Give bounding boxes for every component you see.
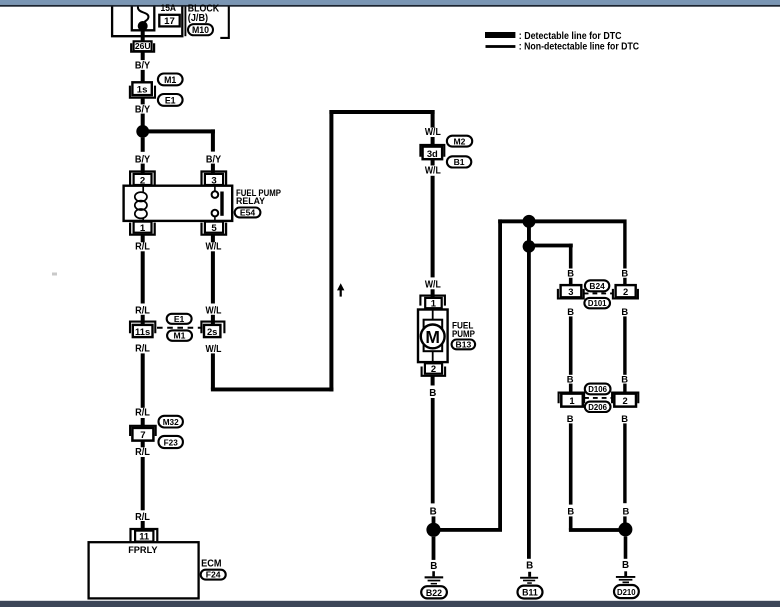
connector oval F23 [159, 436, 183, 448]
wire W/L riser up [329, 110, 333, 391]
ground symbol D210 [616, 576, 635, 583]
legend thin non-detectable line sample [486, 45, 516, 48]
svg-text:1s: 1s [137, 85, 148, 96]
svg-text:E1: E1 [165, 95, 176, 105]
svg-text:R/L: R/L [135, 447, 150, 458]
svg-text:R/L: R/L [135, 305, 150, 316]
pump connector 1 bracket [420, 296, 445, 306]
svg-text:B13: B13 [456, 339, 472, 349]
connector 7 bracket [130, 426, 156, 436]
connector 11s bracket [130, 322, 155, 334]
connector oval B1 [447, 156, 471, 167]
svg-text:RELAY: RELAY [236, 196, 266, 207]
wire label R/L above 7 [135, 408, 150, 419]
wire stub left col to junction horizontal [569, 516, 573, 530]
connector 2 bracket row1 [613, 289, 638, 299]
svg-text:B: B [567, 306, 574, 317]
dashed line between 3 and 2 [584, 292, 613, 294]
relay label FUEL PUMP RELAY [236, 188, 282, 207]
svg-text:2: 2 [431, 363, 436, 374]
wire label B below 2 row2 [621, 413, 628, 424]
connector oval B24 [585, 280, 609, 291]
wire right column right down from corner [623, 223, 626, 269]
wire W/L long segment [211, 251, 215, 303]
label ECM [201, 558, 221, 569]
wire 26U to B/Y [141, 52, 145, 60]
connector 1 bracket row2 [559, 393, 585, 404]
svg-text:W/L: W/L [425, 280, 441, 291]
relay pin 5 bracket [202, 223, 227, 235]
svg-text:FPRLY: FPRLY [128, 545, 158, 556]
connector oval E1 [158, 94, 183, 106]
junction dot [136, 125, 149, 138]
svg-text:B: B [567, 413, 574, 424]
relay coil [135, 186, 147, 223]
svg-text:11: 11 [139, 531, 149, 542]
wire label B/Y right [206, 155, 222, 166]
wire label R/L [135, 241, 150, 252]
wire stub below pump [431, 376, 435, 386]
legend text detectable [519, 30, 622, 42]
junction dot lower [523, 240, 536, 253]
wire W/L down to 3d [431, 110, 435, 128]
connector 1s bracket [130, 86, 155, 98]
dashed line between 1 and 2 row2 [584, 397, 612, 399]
wire R/L to ECM [141, 457, 145, 510]
svg-text:M10: M10 [192, 25, 209, 35]
svg-text:R/L: R/L [135, 408, 150, 419]
wire below D210 dot [624, 536, 628, 558]
wire label B left col above junction [567, 505, 574, 516]
wire label B above ground B11 [526, 560, 533, 571]
svg-text:F24: F24 [206, 570, 221, 580]
svg-text:W/L: W/L [206, 305, 222, 316]
svg-text:PUMP: PUMP [452, 329, 476, 340]
wire label B right col above junction [623, 505, 630, 516]
wire lower dot horizontal to column [529, 244, 573, 248]
flow arrow [337, 283, 344, 296]
svg-text:B: B [526, 560, 533, 571]
wire branch horizontal to relay pin 3 [143, 129, 215, 151]
connector 3 bracket [558, 289, 584, 299]
connector 11s box [133, 325, 153, 337]
connector oval M1 [167, 330, 192, 340]
wire label B below pump [429, 388, 436, 399]
svg-text:B: B [621, 413, 628, 424]
svg-text:B: B [621, 306, 628, 317]
svg-text:B: B [429, 388, 436, 399]
label FPRLY [128, 545, 158, 556]
connector 2 box row2 [614, 394, 636, 407]
wire W/L down from 2s [211, 353, 215, 389]
header bar [0, 0, 780, 7]
svg-text:B: B [430, 561, 437, 572]
fuse block right bracket [220, 7, 229, 38]
relay pin 5 box [205, 222, 223, 234]
fuel pump inner link top [432, 308, 434, 320]
pump connector 1 box [425, 297, 442, 308]
ground oval B22 [421, 586, 447, 598]
svg-text:M1: M1 [174, 331, 186, 341]
wire fuse to 26U [141, 26, 145, 41]
connector 26U bracket [131, 43, 154, 51]
svg-text:W/L: W/L [206, 241, 222, 252]
wire stub into pump connector 1 [431, 289, 435, 298]
wire label W/L above pump [425, 280, 441, 291]
ground B11 stub [528, 572, 531, 577]
svg-text:15A: 15A [161, 2, 177, 13]
wire R/L to M32 row [141, 353, 145, 407]
wire stub into 1 row2 [569, 384, 573, 394]
ground B22 stub [432, 571, 435, 576]
junction dot D210 [618, 522, 632, 536]
fuel pump motor circle [421, 325, 445, 349]
svg-text:3: 3 [568, 286, 573, 297]
svg-text:5: 5 [211, 223, 217, 234]
fuse number box 17 [159, 15, 179, 27]
wire label B/Y left [135, 155, 151, 166]
svg-text:B22: B22 [426, 588, 442, 598]
connector oval D206 [585, 402, 611, 412]
wire label B right column [621, 267, 628, 278]
wire stub below 3d [431, 159, 435, 165]
svg-text:B: B [623, 505, 630, 516]
ground oval B11 [518, 586, 543, 599]
wire segment 2 to row2 [623, 316, 626, 374]
wire R/L long segment [141, 251, 145, 303]
svg-text:B: B [567, 267, 574, 278]
connector oval M2 [447, 136, 472, 147]
connector oval M32 [159, 416, 183, 428]
faint scan speck [52, 273, 57, 276]
connector oval F24 [201, 570, 226, 580]
svg-text:B: B [567, 373, 574, 384]
label FUEL PUMP [452, 320, 476, 340]
svg-text:B: B [621, 267, 628, 278]
wire W/L long down to pump [431, 176, 435, 278]
wire stub to relay pin 2 [141, 164, 145, 174]
svg-text:F23: F23 [164, 438, 179, 447]
wire label B above 1 row2 [567, 373, 574, 384]
connector 3 box [561, 285, 582, 297]
svg-text:26U: 26U [135, 41, 151, 51]
svg-text:R/L: R/L [135, 343, 150, 354]
fuse rating label 15A [161, 2, 177, 13]
svg-text:D210: D210 [617, 588, 636, 597]
wire label B above 2 row2 [621, 373, 628, 384]
wire junction horizontal to riser [434, 528, 503, 532]
relay pin 2 bracket [130, 172, 155, 185]
svg-text:B: B [567, 505, 574, 516]
svg-text:W/L: W/L [425, 166, 441, 177]
connector 3d box [423, 147, 443, 160]
svg-text:M32: M32 [163, 418, 179, 427]
wire label B below 2 row1 [621, 306, 628, 317]
svg-text:17: 17 [164, 16, 175, 27]
wire stub below pin 5 [211, 235, 215, 243]
svg-text:: Non-detectable line for DTC: : Non-detectable line for DTC [519, 40, 640, 52]
wire stub below 7 [141, 441, 145, 448]
svg-text:11s: 11s [135, 326, 150, 337]
wire below junction dot [432, 537, 436, 560]
wire stub into connector 2 row1 [623, 278, 626, 285]
wire stub to relay pin 3 [211, 164, 215, 174]
label BLOCK (J/B) [188, 3, 219, 24]
dashed line between 11s and 2s [157, 327, 203, 329]
svg-text:B24: B24 [589, 281, 605, 291]
wire stub into 11s [141, 315, 145, 325]
svg-text:1: 1 [569, 395, 574, 406]
svg-text:7: 7 [140, 430, 145, 441]
connector oval D106 [585, 384, 611, 395]
svg-text:1: 1 [140, 223, 146, 234]
svg-text:W/L: W/L [425, 127, 441, 138]
svg-text:M: M [425, 327, 440, 347]
connector oval B13 [452, 339, 476, 349]
wire segment left col to junction row [569, 423, 573, 504]
connector oval E1 [167, 314, 192, 324]
connector oval E54 [235, 207, 261, 217]
wire label W/L below 2s [206, 344, 222, 355]
wire riser x500 [498, 219, 502, 529]
ground oval D210 [614, 585, 639, 598]
fuel pump body [418, 310, 448, 363]
connector oval D101 [584, 298, 610, 308]
connector 2s box [204, 325, 220, 337]
svg-text:D106: D106 [588, 385, 607, 394]
footer bar [0, 601, 780, 607]
wire label B/Y [135, 104, 151, 115]
relay pin 1 bracket [130, 223, 155, 235]
svg-text:D206: D206 [588, 403, 607, 412]
fuse F17 inner box [132, 7, 155, 31]
relay pin 1 box [134, 222, 152, 234]
wire B11 column down [527, 246, 531, 558]
svg-text:D101: D101 [588, 299, 607, 308]
fuse block J/B outer box [112, 7, 182, 37]
wire label W/L [206, 305, 222, 316]
wire label B [567, 267, 574, 278]
svg-text:E54: E54 [240, 207, 256, 217]
svg-text:R/L: R/L [135, 241, 150, 252]
ECM box [89, 542, 199, 598]
wire stub into 3d [431, 137, 435, 147]
wire label B/Y [135, 60, 151, 71]
wire stub into connector 3 [569, 278, 573, 285]
wire label B below 3 [567, 306, 574, 317]
wire label B above ground D210 [622, 560, 629, 571]
connector 2 bracket row2 [612, 393, 638, 404]
svg-text:B: B [430, 506, 437, 517]
svg-text:M1: M1 [164, 75, 176, 85]
junction dot upper [523, 215, 536, 228]
wire segment right col to junction dot [623, 423, 626, 523]
svg-text:(J/B): (J/B) [188, 13, 208, 24]
wire label R/L below 11s [135, 343, 150, 354]
relay pin 3 bracket [202, 172, 227, 185]
wire stub into 7 [141, 418, 145, 428]
junction dot B22 [426, 523, 440, 537]
legend thick detectable line sample [485, 32, 515, 38]
wire B/Y to 1s [141, 70, 145, 82]
wire label B below 1 row2 [567, 413, 574, 424]
fuel pump inner rect [424, 320, 443, 352]
wire junction horizontal right pair [569, 528, 626, 532]
wire label W/L [206, 241, 222, 252]
wire B/Y to junction [141, 114, 145, 126]
connector 26U box [134, 41, 152, 51]
connector 2 box row1 [616, 285, 636, 297]
connector oval M10 [188, 24, 213, 35]
pump connector 2 bracket [422, 367, 446, 376]
fuel pump inner link bottom [432, 351, 434, 363]
svg-text:ECM: ECM [201, 558, 221, 569]
wire label R/L above ECM [135, 512, 150, 523]
wire label W/L above 3d [425, 127, 441, 138]
ground symbol B22 [425, 576, 444, 584]
wire link between junction dots [527, 221, 531, 246]
legend text non-detectable [519, 40, 640, 52]
wire 1s to B/Y [141, 98, 145, 105]
relay contact [212, 186, 224, 222]
wire junction down [141, 138, 145, 152]
connector 11 box [135, 531, 153, 542]
svg-text:2: 2 [622, 395, 627, 406]
relay pin 3 box [205, 174, 223, 186]
wire stub to junction [432, 516, 436, 523]
svg-text:W/L: W/L [206, 344, 222, 355]
connector 1 box row2 [561, 394, 583, 407]
connector 11 bracket [131, 529, 158, 541]
svg-text:B/Y: B/Y [135, 60, 151, 71]
wire label B above ground B22 [430, 561, 437, 572]
svg-text:3d: 3d [427, 148, 438, 159]
wire stub into 2s [211, 315, 215, 325]
connector oval M1 [158, 74, 183, 86]
wire stub into 2 row2 [623, 384, 626, 394]
svg-text:B: B [621, 373, 628, 384]
svg-text:B11: B11 [522, 588, 538, 598]
connector 1s box [132, 82, 151, 95]
svg-text:B: B [622, 560, 629, 571]
svg-text:2: 2 [623, 286, 628, 297]
svg-text:1: 1 [431, 297, 436, 308]
wire label R/L below 7 [135, 447, 150, 458]
wire stub below pin 1 [141, 235, 145, 243]
connector 7 box [132, 428, 153, 441]
wire label W/L below 3d [425, 166, 441, 177]
wire B long down [431, 398, 435, 503]
fuse element symbol [138, 7, 149, 32]
fuse block divider line [184, 7, 186, 37]
relay pin 2 box [134, 174, 152, 186]
fuel pump relay body [124, 186, 233, 221]
ground symbol B11 [520, 577, 538, 584]
svg-text:M2: M2 [454, 136, 466, 146]
svg-text:2s: 2s [207, 326, 217, 337]
wire stub into 11 [141, 521, 145, 531]
wire main right horizontal [498, 219, 626, 223]
wire W/L top horizontal [329, 110, 434, 114]
ground D210 stub [624, 571, 627, 576]
svg-text:B1: B1 [454, 157, 465, 167]
wire label B above junction [430, 506, 437, 517]
connector 2s bracket [201, 322, 224, 334]
wire segment 3 to row2 [569, 316, 573, 374]
wire label R/L [135, 305, 150, 316]
wire right column left down from corner [569, 244, 573, 269]
pump connector 2 box [425, 363, 442, 374]
connector 3d bracket [420, 145, 444, 157]
wire W/L horizontal to riser [211, 388, 334, 392]
svg-text:E1: E1 [174, 314, 185, 324]
